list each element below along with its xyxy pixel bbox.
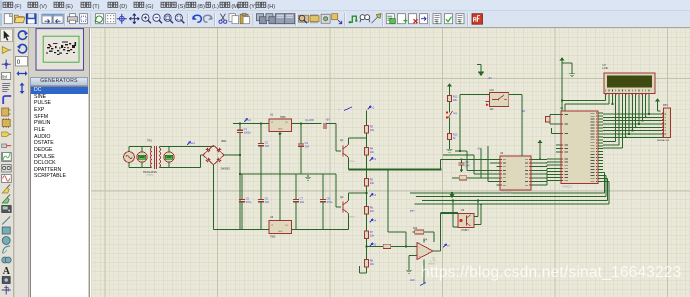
svg-text:VO: VO — [285, 225, 288, 227]
wire out up to opto — [440, 213, 442, 251]
wire adc in6 — [490, 162, 497, 164]
wire data D0 — [625, 97, 627, 137]
junction bus-top — [239, 123, 241, 125]
label vout lbl1 — [305, 119, 314, 122]
svg-text:GND: GND — [278, 231, 283, 233]
ground ladder ground — [446, 147, 452, 152]
svg-text:(D): (D) — [119, 4, 127, 10]
relay RL1 — [490, 92, 509, 106]
wire PV2 bottom stub — [168, 162, 170, 167]
label R10 ref — [413, 228, 418, 230]
label LCD value — [603, 66, 608, 70]
wire ladder w1 — [449, 104, 451, 111]
wire rst stub — [552, 128, 557, 134]
junction chain-rail — [366, 169, 368, 171]
RP1 pins — [661, 112, 666, 137]
top chrome: menu + toolbar — [0, 0, 690, 28]
wire vdd route — [565, 97, 609, 111]
voltmeter PV2 — [164, 152, 174, 162]
junction c2 top — [260, 123, 262, 125]
label RL1 lbl — [523, 111, 527, 113]
wire chain w4 — [366, 217, 368, 229]
wire rs route — [603, 97, 616, 142]
wire C5 top — [241, 174, 243, 200]
junction chain q2 — [366, 192, 368, 194]
power P rp1 — [655, 98, 660, 101]
svg-text:AT89C51: AT89C51 — [562, 186, 573, 189]
junction bus-bridge — [239, 154, 241, 156]
wire drop to Q1 — [336, 124, 341, 152]
wire p0 bus 6 — [603, 133, 661, 135]
capacitor C8 — [320, 197, 333, 205]
label U2 value — [562, 186, 573, 189]
capacitor C3 — [298, 141, 309, 149]
blue mark bottom — [420, 283, 426, 286]
wire adc-mcu 6 — [535, 178, 556, 182]
svg-text:C7: C7 — [300, 197, 304, 201]
resistor R4 — [364, 145, 374, 158]
wire C7 top — [295, 174, 297, 200]
label U4 ref — [424, 239, 428, 242]
probe chain top probe — [368, 106, 375, 110]
svg-text:R7: R7 — [370, 230, 374, 234]
wire opamp plus wire — [409, 255, 417, 257]
wire PV1 bottom stub — [141, 162, 143, 167]
svg-text:12V: 12V — [490, 109, 495, 111]
capacitor C9 — [459, 160, 470, 168]
wire primary bottom rail — [129, 167, 152, 168]
resistor R12 — [447, 93, 458, 104]
label BR1 ref — [222, 139, 228, 143]
junction lineC drop — [452, 200, 454, 202]
wire ladder w3 — [449, 142, 451, 147]
button SW1 — [446, 111, 453, 121]
svg-text:7805: 7805 — [280, 116, 286, 119]
svg-text:U10: U10 — [490, 89, 495, 92]
label U3 ref — [270, 216, 274, 219]
optocoupler U9 — [458, 214, 474, 228]
relay ground arrow — [478, 72, 484, 77]
wire C8 bottom — [322, 202, 324, 230]
wire adc link vertical — [440, 159, 442, 169]
wire data D2 — [631, 97, 633, 131]
label RL1 ref — [490, 89, 495, 92]
probe node AC+ — [187, 142, 196, 146]
wire chain w5 — [366, 241, 368, 257]
svg-text:2W005G: 2W005G — [221, 168, 231, 171]
junction D3 join — [635, 126, 637, 128]
svg-text:104: 104 — [265, 144, 270, 148]
crystal X1 — [546, 117, 550, 122]
svg-text:TRAN-2P2S: TRAN-2P2S — [143, 171, 157, 174]
gnd arrow line A — [449, 194, 454, 198]
wire xtal v — [549, 115, 551, 125]
capacitor C1 — [237, 127, 251, 135]
ground mcu ground — [569, 72, 575, 77]
wire primary top rail — [129, 147, 152, 148]
wire top rail to U1 — [240, 123, 269, 125]
svg-text:A: A — [3, 266, 11, 277]
wire data D6 — [645, 97, 647, 117]
wire Q2 collector up — [349, 193, 367, 201]
svg-text:(G): (G) — [145, 4, 153, 10]
capacitor C2 — [258, 141, 269, 149]
svg-text:LCD: LCD — [603, 66, 608, 70]
junction D4 join — [638, 123, 640, 125]
wire U1 gnd stub — [279, 131, 281, 174]
svg-text:-: - — [419, 245, 420, 249]
probe chain p3 — [370, 219, 377, 223]
svg-text:+5V: +5V — [488, 78, 493, 80]
ground mid-rail ground — [305, 175, 311, 180]
svg-text:U1: U1 — [270, 113, 274, 117]
U1 gnd arrow — [278, 133, 282, 136]
svg-text:10k: 10k — [370, 181, 375, 185]
wire C6 top — [260, 174, 262, 200]
wire opto out top — [474, 200, 478, 216]
svg-text:TIP41: TIP41 — [349, 161, 356, 163]
ADC pins — [497, 159, 536, 186]
wire pwr stem — [539, 143, 541, 159]
wire adc in4 — [480, 149, 482, 178]
wire secondary bottom rail — [159, 155, 203, 168]
wire data D4 — [638, 97, 640, 124]
wire R11 left — [452, 177, 457, 179]
wire C2 bottom — [260, 146, 262, 174]
wire adc-mcu 3 — [535, 168, 556, 170]
junction D6 join — [645, 116, 647, 118]
resistor R6 — [364, 204, 374, 217]
wire opto input — [441, 212, 459, 214]
wire V1 top stub — [128, 147, 130, 152]
wire opamp out — [433, 250, 441, 252]
wire ladder w2 — [449, 120, 451, 131]
wire tap to R9 — [367, 245, 382, 247]
capacitor C7 — [293, 197, 304, 205]
svg-text:C6: C6 — [265, 197, 269, 201]
wire data D1 — [628, 97, 630, 134]
wire opto cathode drop — [453, 200, 458, 227]
wire C3 top — [300, 124, 302, 145]
label U1 value — [280, 116, 286, 119]
power P vcc mcu — [560, 57, 565, 60]
svg-text:C8: C8 — [327, 197, 331, 201]
label Q2 ref — [340, 196, 344, 199]
junction out-rail — [440, 169, 442, 171]
wire adc-mcu 5 — [535, 175, 556, 178]
wire rw route — [603, 97, 619, 145]
wire vcc vert — [561, 60, 563, 111]
wire adc-mcu 7 — [535, 181, 556, 186]
relay left pin — [486, 102, 490, 107]
capacitor C6 — [258, 197, 269, 205]
label adc vref — [477, 148, 482, 151]
schematic editing window — [91, 28, 690, 297]
label LCD ref — [603, 63, 607, 67]
label TR1 value — [143, 171, 157, 174]
capacitor C4 inline — [324, 123, 326, 129]
wire C8 top — [322, 174, 324, 200]
resistor R5 — [364, 176, 374, 189]
resistor R3 — [364, 123, 374, 136]
regulator U3 7905 — [269, 221, 292, 234]
wire chain bottom L — [360, 266, 367, 273]
wire C6 bottom — [260, 202, 262, 230]
transformer TR1 — [150, 146, 160, 169]
object selector panel — [29, 28, 89, 297]
probe chain p2 — [370, 194, 377, 198]
wire p0 bus 3 — [603, 123, 661, 125]
label gain lbl — [410, 211, 415, 213]
wire opamp vee stub — [423, 260, 425, 285]
junction c3 top — [300, 123, 302, 125]
wire rail after C4 — [326, 123, 336, 125]
wire adc-mcu 0 — [535, 158, 556, 160]
resistor R8 — [364, 257, 374, 270]
wire dc bus upper — [239, 124, 241, 131]
wire mcu p3 line A — [410, 172, 605, 193]
svg-text:BR1: BR1 — [222, 139, 228, 143]
wire adc-mcu 1 — [535, 161, 556, 164]
label Q2 value — [349, 217, 356, 219]
wire Q1 emitter down — [348, 158, 350, 170]
svg-text:7905: 7905 — [270, 236, 276, 239]
voltmeter PV1 — [137, 152, 147, 162]
label U3 value — [270, 236, 276, 239]
svg-text:10k: 10k — [453, 98, 458, 102]
wire fb to out — [426, 232, 434, 242]
wire relay in — [460, 95, 490, 151]
svg-text:R4: R4 — [370, 147, 374, 151]
label vout lbl2 — [326, 119, 331, 122]
wire mid rail to opamp area — [349, 169, 441, 171]
svg-text:R6: R6 — [370, 206, 374, 210]
svg-text:104: 104 — [305, 145, 310, 149]
MCU pins — [556, 113, 603, 182]
label BR1 value — [221, 168, 231, 171]
resistor R7 — [364, 229, 374, 242]
capacitor C5 — [239, 197, 252, 205]
probe chain p1 — [370, 158, 377, 162]
svg-text:(L): (L) — [212, 4, 219, 10]
junction chain mid-rail — [366, 169, 368, 171]
wire Q2 base wire — [336, 174, 341, 207]
svg-text:10k: 10k — [370, 150, 375, 154]
svg-text:gain: gain — [410, 211, 415, 213]
wire U3 gnd stub — [279, 174, 281, 221]
svg-text:ac1: ac1 — [191, 142, 196, 145]
svg-text:R10: R10 — [413, 228, 418, 230]
watermark — [421, 264, 682, 282]
junction D0 join — [625, 136, 627, 138]
junction bus-mid — [239, 173, 241, 175]
C9 gnd arrow — [460, 170, 464, 173]
wire chain w1 — [366, 136, 368, 146]
svg-text:C2: C2 — [265, 141, 269, 145]
junction opto-lineD — [480, 203, 482, 205]
probe chain p4 — [370, 243, 377, 247]
wire adc in2 — [455, 151, 497, 170]
label RP1 value — [657, 139, 670, 142]
label U4 value — [428, 264, 435, 266]
resistor R10 feedback — [413, 230, 427, 234]
label U6 value — [501, 192, 512, 195]
svg-text:(V): (V) — [39, 4, 47, 10]
wire gnd branch — [562, 63, 572, 72]
svg-text:TR1: TR1 — [147, 139, 152, 143]
regulator U1 7805 — [269, 119, 292, 132]
wire p0 bus 1 — [603, 116, 661, 118]
junction pwr-bundle — [539, 158, 541, 160]
wire C3 bottom — [300, 146, 302, 174]
resistor pack RP1 — [664, 108, 671, 138]
label U9 value — [462, 229, 470, 232]
svg-text:+5V: +5V — [326, 119, 331, 122]
svg-text:R5: R5 — [370, 178, 374, 182]
wire U1 out rail — [292, 123, 322, 125]
wire data D7 — [648, 97, 650, 114]
svg-text:104: 104 — [465, 163, 470, 167]
label U6 ref — [500, 152, 504, 155]
label SW1 lbl — [454, 113, 458, 115]
svg-text:+: + — [419, 255, 421, 259]
junction D5 join — [641, 120, 643, 122]
svg-text:10k: 10k — [370, 209, 375, 213]
wire data D3 — [635, 97, 637, 127]
label RP1 ref — [663, 104, 668, 107]
major grid lines — [91, 28, 690, 297]
svg-text:AD0: AD0 — [410, 279, 415, 282]
label gnd lbl — [488, 78, 493, 80]
wire opamp vcc stub — [423, 239, 425, 243]
wire PV2 top stub — [168, 147, 170, 152]
wire C5 bottom — [241, 202, 243, 230]
transistor Q1 — [343, 145, 349, 158]
svg-text:R12: R12 — [453, 95, 458, 99]
power P mcu — [538, 140, 543, 143]
label U1 ref — [270, 113, 274, 117]
left mode toolbar column 1 — [0, 28, 14, 297]
junction vss join — [561, 100, 563, 102]
left orientation column 2 — [15, 28, 30, 297]
svg-text:104: 104 — [265, 200, 270, 204]
svg-text:(H): (H) — [267, 4, 275, 10]
label Q1 value — [349, 161, 356, 163]
wire mcu p3 line C — [422, 178, 608, 200]
wire p0 bus 7 — [603, 136, 661, 138]
svg-text:470u: 470u — [327, 200, 333, 204]
wire dc bus lower — [239, 132, 241, 229]
junction vee join — [612, 103, 614, 105]
gap strip — [89, 28, 92, 297]
wire p0 bus 2 — [603, 120, 661, 122]
svg-text:$: $ — [459, 20, 462, 26]
wire data D5 — [641, 97, 643, 121]
MCU U2 AT89C51 — [561, 111, 598, 184]
LCD LM016L — [604, 73, 655, 94]
svg-text:TIP42: TIP42 — [349, 217, 356, 219]
svg-text:1000u: 1000u — [244, 131, 252, 135]
svg-text:(S): (S) — [178, 4, 186, 10]
svg-text:$: $ — [436, 20, 439, 26]
junction D1 join — [628, 133, 630, 135]
junction D7 join — [648, 113, 650, 115]
svg-text:Q=+808: Q=+808 — [305, 119, 314, 122]
svg-text:VO: VO — [285, 122, 288, 124]
wire adc-mcu 4 — [535, 171, 556, 174]
wire Q1 collector up — [349, 138, 367, 145]
wire R9 to opamp — [393, 245, 417, 247]
junction lineA arrow — [451, 192, 453, 194]
svg-text:lbl: lbl — [2, 74, 7, 79]
junction relay-adc join — [459, 150, 461, 152]
svg-text:R3: R3 — [370, 125, 374, 129]
wire bridge bottom drop — [213, 165, 215, 230]
wire opto out bot — [474, 204, 481, 224]
wire xtal w1 — [550, 114, 556, 116]
wire p0 bus 4 — [603, 126, 661, 128]
svg-text:R13: R13 — [453, 133, 458, 137]
wire vee route — [611, 97, 613, 104]
label TR1 sub — [146, 174, 154, 177]
svg-text:10k: 10k — [370, 128, 375, 132]
label blue lbl opamp — [410, 279, 415, 282]
label U2 ref — [560, 107, 564, 110]
wire V1 bottom stub — [128, 162, 130, 167]
svg-text:C3: C3 — [305, 141, 309, 145]
bridge rectifier BR1 — [203, 145, 224, 165]
svg-text:10k: 10k — [370, 262, 375, 266]
wire bottom rail left — [214, 229, 270, 231]
junction fb-in — [405, 246, 407, 248]
svg-text:(TRAN): (TRAN) — [146, 174, 154, 177]
transistor Q2 — [343, 201, 349, 214]
probe arrow top — [338, 107, 352, 111]
wire bottom rail right — [292, 229, 349, 231]
svg-text:(F): (F) — [14, 4, 21, 10]
svg-text:C5: C5 — [246, 197, 250, 201]
svg-text:R8: R8 — [370, 259, 374, 263]
svg-text:(E): (E) — [65, 4, 73, 10]
svg-text:470u: 470u — [246, 200, 252, 204]
AC source V1 — [124, 152, 135, 163]
op-amp U4 — [417, 243, 433, 260]
ground opamp ground — [406, 268, 412, 273]
wire vss route — [562, 97, 606, 101]
wire top rail left end — [233, 123, 240, 125]
resistor R9 — [381, 244, 393, 248]
svg-text:RESPACK-8: RESPACK-8 — [657, 139, 670, 142]
wire adc in5 — [488, 146, 497, 182]
wire R11 wire — [469, 177, 497, 179]
wire C9 top — [461, 159, 463, 163]
svg-text:ADC0832: ADC0832 — [501, 192, 512, 195]
svg-text:0: 0 — [17, 59, 21, 66]
label RL1 12v — [490, 109, 495, 111]
svg-text:(T): (T) — [92, 4, 99, 10]
wire p0 bus 5 — [603, 130, 661, 132]
junction opto-lineC — [477, 200, 479, 202]
wire mid rail — [240, 173, 336, 175]
wire adc in1 — [441, 158, 497, 160]
svg-text:C1: C1 — [244, 127, 248, 131]
wire C7 bottom — [295, 202, 297, 230]
svg-text:104: 104 — [300, 200, 305, 204]
wire rp1 pwr wire — [658, 101, 661, 110]
svg-text:PC817: PC817 — [462, 229, 470, 232]
wire mcu p3 line D — [415, 181, 610, 204]
wire chain top — [366, 111, 368, 124]
